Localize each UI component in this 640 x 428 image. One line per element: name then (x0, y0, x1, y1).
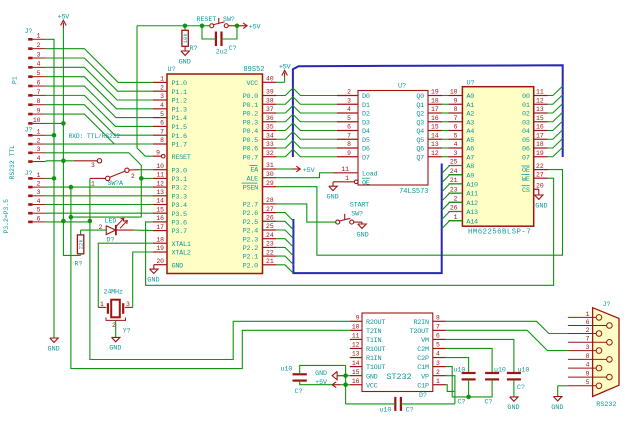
node ST232 GND dot (343, 373, 348, 378)
svg-text:74LS573: 74LS573 (399, 188, 428, 196)
svg-text:u10: u10 (380, 406, 392, 413)
svg-text:D?: D? (419, 392, 427, 399)
svg-text:RESET: RESET (172, 154, 191, 162)
svg-text:P3.2=P3.5: P3.2=P3.5 (3, 199, 10, 234)
svg-text:30: 30 (266, 171, 274, 178)
svg-text:XTAL2: XTAL2 (172, 250, 191, 258)
svg-text:6: 6 (37, 79, 41, 86)
svg-text:20: 20 (156, 258, 164, 265)
resistor R? 10k pull-up (182, 30, 198, 52)
svg-text:27: 27 (536, 171, 544, 178)
svg-text:GND: GND (327, 194, 339, 202)
svg-text:ST232: ST232 (387, 372, 412, 382)
wire bottom cap right to VP (401, 403, 455, 405)
+5V arrow after reset switch (239, 23, 262, 32)
svg-text:A7: A7 (466, 154, 474, 162)
svg-text:U?: U? (168, 66, 176, 74)
svg-text:4: 4 (347, 106, 351, 113)
svg-text:13: 13 (156, 189, 164, 196)
svg-text:39: 39 (266, 89, 274, 96)
wire bottom cap left to VCC rail (346, 403, 396, 405)
89S52 pin 31 EA with +5V arrow (249, 162, 315, 175)
svg-text:A12: A12 (466, 200, 478, 208)
svg-text:P3.2: P3.2 (172, 185, 187, 193)
svg-text:Y?: Y? (123, 327, 131, 334)
svg-text:A2: A2 (466, 111, 474, 119)
svg-text:2: 2 (436, 369, 440, 376)
svg-text:12: 12 (156, 180, 164, 187)
svg-text:A1: A1 (466, 102, 474, 110)
svg-text:18: 18 (156, 236, 164, 243)
HM62256 pin 20 CS with ground (522, 183, 548, 211)
svg-text:+5V: +5V (303, 167, 316, 175)
wire R2OUT route SW?A pin1 to ST232 (90, 178, 350, 359)
wire LED anode from R? (81, 230, 107, 235)
svg-text:2: 2 (37, 137, 41, 144)
svg-text:18: 18 (536, 141, 544, 148)
89S52 right pins P2.7-P2.0 (28-21) (243, 197, 277, 270)
IC U? HM62256BLSP-7 body (462, 79, 533, 236)
svg-text:T2OUT: T2OUT (410, 328, 429, 336)
svg-text:GND: GND (507, 404, 519, 412)
svg-text:P1.7: P1.7 (172, 142, 187, 150)
wire XTAL1 to crystal pin1 (98, 243, 153, 307)
wire ST232 VCC row (341, 384, 350, 386)
74LS573 left pins D0-D7 (2-9) (337, 89, 370, 163)
svg-text:VM: VM (421, 337, 429, 345)
74LS573 right pins Q0-Q7 (19-12) (416, 89, 442, 163)
svg-text:C?: C? (517, 384, 525, 391)
wire J3 pin3 to MCU pin13 P3.3 (46, 195, 153, 197)
node J3 pin6 R2OUT crossing dot (88, 219, 93, 224)
R? ground symbol (179, 46, 191, 66)
svg-text:P0.5: P0.5 (243, 137, 258, 145)
wire LED cathode to MCU pin17 P3.7 (116, 229, 153, 232)
svg-text:25: 25 (266, 223, 274, 230)
DB9 pins 6-9 (568, 319, 612, 380)
svg-text:D4: D4 (362, 128, 370, 136)
svg-text:P3.5: P3.5 (172, 211, 187, 219)
HM62256 pin 22 OE (522, 163, 548, 175)
svg-text:5: 5 (37, 70, 41, 77)
svg-text:J?: J? (25, 28, 33, 35)
svg-text:+5V: +5V (249, 24, 262, 32)
svg-text:4: 4 (586, 362, 590, 369)
svg-text:9: 9 (347, 150, 351, 157)
svg-text:C2M: C2M (417, 346, 429, 354)
connector J2 (RS232 TTL header) (9, 127, 46, 180)
svg-text:25: 25 (450, 159, 458, 166)
svg-text:P0.6: P0.6 (243, 146, 258, 154)
svg-text:P2.2: P2.2 (243, 245, 258, 253)
svg-text:u10: u10 (518, 366, 530, 373)
svg-text:P1: P1 (12, 76, 19, 84)
svg-text:9: 9 (356, 315, 360, 322)
svg-text:P0.1: P0.1 (243, 102, 258, 110)
wires bus exits to SRAM A8-A14 (442, 166, 463, 229)
89S52 pin 9 RESET (153, 149, 191, 161)
svg-text:P0.7: P0.7 (243, 154, 258, 162)
wire C1M to cap A and B bottoms (446, 367, 492, 397)
svg-text:R?: R? (190, 45, 198, 52)
svg-text:P1.1: P1.1 (172, 89, 187, 97)
svg-text:26: 26 (450, 205, 458, 212)
svg-text:A10: A10 (466, 182, 478, 190)
svg-text:10: 10 (352, 324, 360, 331)
svg-text:D7: D7 (362, 154, 370, 162)
svg-text:GND: GND (551, 404, 563, 412)
svg-text:P3.4: P3.4 (172, 202, 187, 210)
svg-text:GND: GND (366, 373, 378, 381)
svg-text:P2.0: P2.0 (243, 262, 258, 270)
svg-text:34: 34 (266, 132, 274, 139)
wire C? right leg (222, 26, 238, 39)
wire GND vertical rail from J1 pin1 (46, 39, 54, 338)
connector J? DB9 RS232 body (593, 301, 619, 409)
svg-text:RS232 TTL: RS232 TTL (9, 145, 16, 180)
wire J1 pin10 to +5V rail (46, 122, 64, 124)
svg-text:3: 3 (436, 360, 440, 367)
wire C1P hook (446, 385, 455, 392)
svg-text:3: 3 (586, 344, 590, 351)
svg-text:29: 29 (266, 180, 274, 187)
bus P0 data blue (293, 65, 563, 157)
svg-text:Load: Load (362, 170, 377, 178)
svg-text:2: 2 (37, 42, 41, 49)
svg-text:GND: GND (179, 58, 191, 66)
svg-text:D0: D0 (362, 93, 370, 101)
svg-text:R1OUT: R1OUT (366, 346, 385, 354)
svg-text:Q0: Q0 (416, 93, 424, 101)
svg-text:23: 23 (450, 186, 458, 193)
capacitor C? u10 left of ST232 (281, 366, 307, 395)
svg-text:8: 8 (347, 141, 351, 148)
svg-text:1: 1 (37, 129, 41, 136)
svg-text:3: 3 (37, 146, 41, 153)
capacitor C? 2u2 (216, 32, 237, 56)
wire J3 pin5 to MCU pin15 P3.5 (46, 212, 153, 214)
svg-text:5: 5 (37, 207, 41, 214)
svg-text:9: 9 (454, 97, 458, 104)
svg-text:13: 13 (536, 106, 544, 113)
svg-text:20: 20 (536, 183, 544, 190)
svg-text:22k: 22k (77, 239, 84, 250)
svg-text:19: 19 (156, 245, 164, 252)
svg-text:D5: D5 (362, 137, 370, 145)
svg-text:6: 6 (37, 215, 41, 222)
svg-text:16: 16 (536, 124, 544, 131)
svg-text:RS232: RS232 (596, 401, 616, 409)
svg-text:J?: J? (603, 301, 611, 308)
svg-text:17: 17 (156, 224, 164, 231)
wire T2IN long route to ST232 (71, 187, 350, 369)
svg-text:A5: A5 (466, 137, 474, 145)
svg-text:T1OUT: T1OUT (366, 364, 385, 372)
svg-text:P2.4: P2.4 (243, 228, 258, 236)
svg-text:3: 3 (91, 162, 95, 169)
svg-text:1: 1 (37, 172, 41, 179)
wire left cap bottom to VCC row (300, 381, 333, 385)
svg-text:8: 8 (37, 98, 41, 105)
svg-text:P2.3: P2.3 (243, 236, 258, 244)
svg-text:START: START (350, 202, 369, 210)
switch SW?A (74, 159, 139, 188)
wire C? left leg (202, 26, 216, 39)
svg-text:7: 7 (586, 336, 590, 343)
svg-text:A3: A3 (466, 119, 474, 127)
svg-text:D6: D6 (362, 146, 370, 154)
svg-text:16: 16 (352, 378, 360, 385)
svg-text:3: 3 (347, 97, 351, 104)
svg-text:3: 3 (160, 93, 164, 100)
89S52 pin 20 GND and ground symbol (147, 258, 183, 285)
svg-text:A14: A14 (466, 218, 478, 226)
capacitor C? u10 on VM (507, 366, 530, 391)
+5V symbol top-left (58, 14, 71, 29)
svg-text:6: 6 (436, 333, 440, 340)
svg-text:+5V: +5V (58, 14, 71, 22)
connector J3 (P3.2=P3.5 header) (3, 170, 46, 234)
svg-text:SW?: SW? (351, 210, 363, 218)
svg-text:1: 1 (436, 378, 440, 385)
svg-text:2: 2 (131, 173, 135, 180)
node TXD dot to MCU pin11 (139, 176, 144, 181)
wire +5V vertical rail (63, 28, 80, 255)
svg-text:GND: GND (357, 231, 369, 239)
svg-text:15: 15 (352, 369, 360, 376)
svg-text:P2.1: P2.1 (243, 254, 258, 262)
svg-text:GND: GND (535, 202, 547, 210)
svg-text:SW?: SW? (223, 16, 235, 23)
svg-text:3: 3 (126, 301, 130, 308)
ST232 left pins 9-16 (350, 315, 386, 391)
svg-text:21: 21 (450, 177, 458, 184)
svg-text:A0: A0 (466, 93, 474, 101)
svg-text:P1.5: P1.5 (172, 124, 187, 132)
svg-text:Q3: Q3 (416, 119, 424, 127)
svg-text:U?: U? (398, 83, 406, 91)
89S52 pin 30 ALE (247, 171, 277, 183)
svg-text:Q4: Q4 (416, 128, 424, 136)
wire VM to cap and ground (446, 339, 514, 373)
svg-text:89S52: 89S52 (243, 66, 264, 74)
svg-text:P0.0: P0.0 (243, 93, 258, 101)
wires SRAM O0-O7 diagonals to data bus (548, 86, 563, 157)
wire J3 pin6 to +5V rail (46, 221, 90, 223)
89S52 left pins P1.0-P1.7 (1-8) (153, 76, 187, 150)
svg-text:PSEN: PSEN (243, 184, 258, 192)
IC U? 89S52 body (167, 66, 265, 274)
svg-text:OE: OE (522, 167, 530, 175)
wire R2IN to DB9 pin2 (446, 321, 568, 333)
svg-text:5: 5 (586, 379, 590, 386)
svg-text:9: 9 (37, 107, 41, 114)
svg-text:00: 00 (522, 93, 530, 101)
svg-text:16: 16 (156, 215, 164, 222)
wire T2OUT to DB9 pin3 (446, 330, 568, 350)
svg-text:11: 11 (352, 333, 360, 340)
wire dot to MCU pin11 P3.1 (141, 177, 153, 179)
svg-text:P0.2: P0.2 (243, 111, 258, 119)
svg-text:18: 18 (431, 97, 439, 104)
switch SW? RESET (197, 16, 235, 28)
svg-text:7: 7 (436, 324, 440, 331)
wire J3 pin1 to GND rail (46, 177, 54, 179)
node +5V rail dots (61, 121, 66, 126)
svg-text:P2.6: P2.6 (243, 210, 258, 218)
svg-text:11: 11 (536, 89, 544, 96)
svg-text:J?: J? (25, 127, 33, 134)
svg-text:VCC: VCC (366, 382, 378, 390)
svg-text:u10: u10 (494, 366, 506, 373)
svg-text:Q5: Q5 (416, 137, 424, 145)
svg-text:J?: J? (25, 170, 33, 177)
89S52 pin 29 PSEN (242, 180, 277, 192)
svg-text:19: 19 (431, 89, 439, 96)
svg-text:12: 12 (431, 150, 439, 157)
svg-text:VP: VP (421, 373, 429, 381)
svg-text:2: 2 (454, 196, 458, 203)
svg-text:35: 35 (266, 124, 274, 131)
svg-text:Q1: Q1 (416, 102, 424, 110)
HM62256 right pins O0-O7 (522, 89, 547, 163)
svg-text:Q2: Q2 (416, 111, 424, 119)
svg-text:C1P: C1P (417, 382, 429, 390)
svg-text:GND: GND (172, 262, 184, 270)
wire R? bottom to +5V rail (80, 254, 82, 256)
node ST232 VCC dot (343, 382, 348, 387)
svg-text:OE: OE (362, 179, 370, 187)
svg-text:07: 07 (522, 154, 530, 162)
svg-text:8: 8 (436, 315, 440, 322)
node RESET junction dots (183, 23, 188, 28)
svg-text:38: 38 (266, 97, 274, 104)
svg-text:26: 26 (266, 215, 274, 222)
svg-text:C?: C? (229, 45, 237, 52)
svg-text:10: 10 (33, 117, 41, 124)
svg-text:33: 33 (266, 141, 274, 148)
ground symbol under crystal (112, 337, 120, 341)
89S52 pins XTAL1 XTAL2 (18,19) (153, 236, 191, 257)
svg-text:A11: A11 (466, 191, 478, 199)
wire J2 pin1 to GND rail (46, 134, 54, 136)
HM62256 left pins A0-A7 (449, 89, 475, 163)
svg-text:32: 32 (266, 150, 274, 157)
node T2IN branch dot (69, 215, 74, 220)
svg-text:19: 19 (536, 150, 544, 157)
IC U? 74LS573 body (358, 83, 429, 197)
74LS573 pin 11 Load (333, 166, 377, 178)
svg-text:A6: A6 (466, 146, 474, 154)
svg-text:06: 06 (522, 146, 530, 154)
crystal Y? 24MHz (98, 289, 132, 335)
svg-text:SW?A: SW?A (108, 180, 124, 188)
svg-text:24: 24 (450, 168, 458, 175)
svg-text:P1.3: P1.3 (172, 106, 187, 114)
svg-text:8: 8 (160, 137, 164, 144)
svg-text:P1.2: P1.2 (172, 98, 187, 106)
svg-text:7: 7 (454, 115, 458, 122)
wire VP down to bottom rail (446, 376, 455, 404)
svg-text:P1.4: P1.4 (172, 115, 187, 123)
svg-text:P3.3: P3.3 (172, 193, 187, 201)
svg-text:5: 5 (160, 111, 164, 118)
svg-text:EA: EA (250, 167, 259, 175)
wire ALE to 74LS573 Load (276, 173, 333, 178)
wire J3 pin2 to MCU pin12 P3.2 (46, 186, 153, 188)
svg-text:8: 8 (586, 353, 590, 360)
svg-text:1: 1 (91, 181, 95, 188)
svg-text:22: 22 (536, 163, 544, 170)
svg-text:P2.5: P2.5 (243, 219, 258, 227)
svg-text:37: 37 (266, 106, 274, 113)
wire PSEN to SRAM OE route (276, 170, 562, 256)
svg-text:XTAL1: XTAL1 (172, 241, 191, 249)
svg-text:01: 01 (522, 102, 530, 110)
svg-text:9: 9 (586, 371, 590, 378)
svg-text:15: 15 (431, 124, 439, 131)
wire SW?A pin2 to MCU pin10 P3.0 (139, 169, 154, 171)
svg-text:VCC: VCC (247, 80, 259, 88)
svg-text:D1: D1 (362, 102, 370, 110)
ST232 VCC +5V arrow symbol (315, 379, 341, 387)
wire ST232 GND row (337, 375, 350, 377)
svg-text:A4: A4 (466, 128, 474, 136)
resistor R? 22k LED resistor (75, 235, 85, 268)
svg-text:P1.6: P1.6 (172, 133, 187, 141)
wire P3.6 to SRAM WE route (146, 178, 554, 285)
svg-text:A9: A9 (466, 172, 474, 180)
ground symbol bottom-left rail (50, 338, 58, 342)
wires J1 pins2-9 diagonals to P1.0-P1.7 (46, 49, 153, 144)
node GND rail dots (52, 133, 57, 138)
svg-text:LED: LED (105, 218, 117, 225)
svg-text:6: 6 (347, 124, 351, 131)
svg-text:14: 14 (352, 360, 360, 367)
svg-text:1: 1 (454, 214, 458, 221)
89S52 left pins P3.0-P3.7 (10-17) (153, 163, 187, 236)
svg-text:P3.0: P3.0 (172, 167, 187, 175)
svg-text:2: 2 (37, 181, 41, 188)
svg-text:21: 21 (266, 258, 274, 265)
bus P2 address blue (293, 164, 441, 274)
DB9 pin5 ground symbol (551, 386, 568, 412)
svg-text:2u2: 2u2 (216, 49, 228, 56)
svg-text:5: 5 (347, 115, 351, 122)
svg-text:P0.3: P0.3 (243, 119, 258, 127)
svg-text:15: 15 (156, 206, 164, 213)
svg-text:13: 13 (431, 141, 439, 148)
svg-text:8: 8 (454, 106, 458, 113)
svg-text:R1IN: R1IN (366, 355, 381, 363)
capacitor C? u10 bottom under ST232 (380, 397, 414, 413)
svg-text:7: 7 (37, 89, 41, 96)
wire J2 pin3 TXD to vertical 141.3 (46, 153, 142, 217)
svg-text:13: 13 (352, 351, 360, 358)
svg-text:4: 4 (160, 102, 164, 109)
svg-text:6: 6 (454, 124, 458, 131)
wire C2M to cap B (446, 348, 492, 373)
svg-text:P3.1: P3.1 (172, 176, 187, 184)
svg-text:4: 4 (37, 155, 41, 162)
svg-text:11: 11 (156, 172, 164, 179)
svg-text:WE: WE (522, 176, 530, 184)
svg-text:D?: D? (107, 236, 115, 243)
wire RESET to MCU pin9 (137, 26, 153, 156)
wire J2 pin4 to +5V rail and SW?A pin3 (46, 160, 74, 162)
ST232 GND arrow symbol (315, 370, 345, 380)
svg-text:10: 10 (450, 89, 458, 96)
